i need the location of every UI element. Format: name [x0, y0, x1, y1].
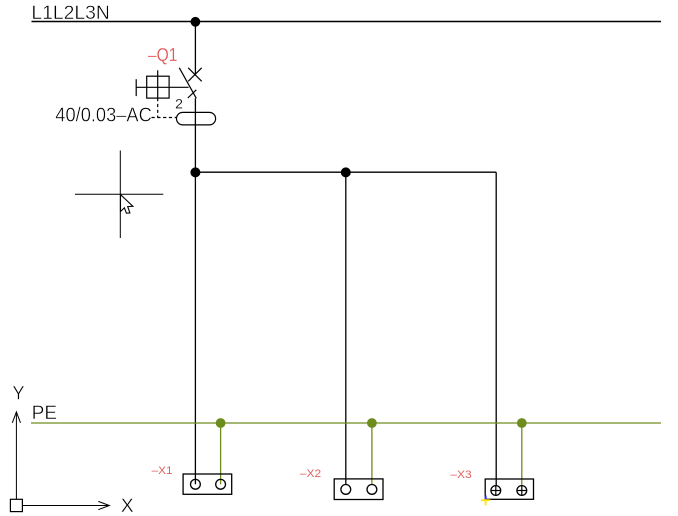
svg-text:–X2: –X2	[300, 468, 321, 480]
svg-text:PE: PE	[32, 403, 58, 424]
svg-text:–X1: –X1	[152, 465, 173, 477]
svg-text:L1L2L3N: L1L2L3N	[31, 3, 110, 24]
svg-text:X: X	[121, 495, 134, 516]
svg-text:2: 2	[175, 97, 183, 112]
svg-text:–X3: –X3	[450, 469, 471, 481]
svg-text:–Q1: –Q1	[148, 44, 178, 65]
svg-text:Y: Y	[12, 383, 24, 405]
svg-text:40/0.03–AC: 40/0.03–AC	[55, 104, 152, 126]
